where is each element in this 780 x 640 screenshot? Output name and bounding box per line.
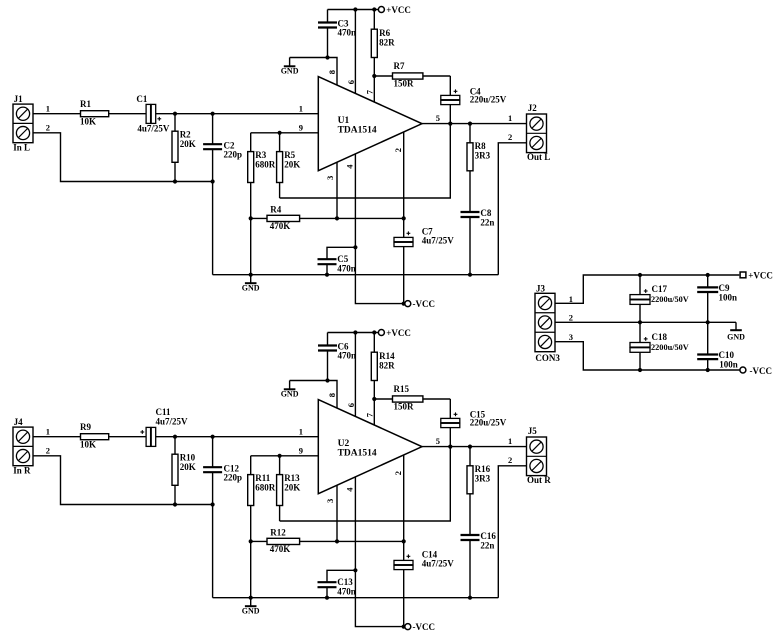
resistor R13 20K [279, 456, 281, 475]
node C4/feedback [448, 122, 452, 126]
wire J3.2 (gnd) [555, 321, 736, 323]
svg-text:R7: R7 [394, 61, 405, 71]
svg-text:1: 1 [508, 436, 512, 446]
pin 4 wire of U1 to -VCC [355, 154, 403, 304]
output wire pin5 [422, 446, 527, 448]
svg-text:GND: GND [727, 333, 745, 342]
svg-text:3: 3 [325, 176, 335, 180]
svg-text:R6: R6 [379, 28, 390, 38]
svg-text:2: 2 [46, 123, 50, 133]
svg-text:+VCC: +VCC [386, 5, 411, 15]
svg-text:R13: R13 [284, 473, 300, 483]
node C17 top [638, 273, 642, 277]
svg-text:R2: R2 [180, 130, 191, 140]
node R6/R7/pin7 [372, 74, 376, 78]
svg-text:TDA1514: TDA1514 [338, 125, 377, 135]
svg-text:1: 1 [299, 427, 303, 437]
wire to gnd symbol (top) [290, 57, 328, 59]
svg-text:470n: 470n [337, 264, 356, 274]
node C6 bottom / pin8 [325, 378, 329, 382]
pin 2 wire of U1 [403, 132, 405, 237]
feedback wire from output [280, 447, 451, 521]
svg-text:470n: 470n [338, 28, 357, 38]
capacitor C18 2200u/50V [639, 322, 641, 342]
wire R1 to C1 [109, 113, 146, 115]
node R6 top [372, 7, 376, 11]
svg-text:R8: R8 [475, 141, 486, 151]
node C5 branch [353, 245, 357, 249]
+VCC terminal (square) [740, 272, 746, 278]
svg-text:8: 8 [327, 70, 337, 74]
resistor R10 20K [174, 437, 176, 455]
svg-text:20K: 20K [284, 483, 300, 493]
node R11 on gnd rail [249, 596, 253, 600]
gnd rail wire [213, 597, 499, 599]
svg-text:GND: GND [242, 284, 260, 293]
svg-text:J5: J5 [528, 426, 538, 436]
wire J4.2 return [33, 456, 213, 505]
svg-text:6: 6 [346, 403, 356, 407]
resistor R1 10K [81, 111, 109, 117]
svg-text:U1: U1 [338, 116, 350, 126]
node R10 bottom [173, 502, 177, 506]
svg-text:3R3: 3R3 [475, 474, 491, 484]
node -VCC junction [402, 625, 406, 629]
svg-text:In L: In L [13, 143, 30, 153]
wire C14 to -VCC rail [403, 570, 405, 627]
svg-text:4u7/25V: 4u7/25V [156, 417, 189, 427]
node C2 bottom [211, 179, 215, 183]
svg-text:R3: R3 [255, 150, 266, 160]
node C15/feedback [448, 445, 452, 449]
node C18 bottom [638, 368, 642, 372]
wire pin9 of U1 [251, 132, 319, 134]
wire to J5.2 [498, 466, 526, 598]
resistor R15 150R [374, 398, 392, 400]
capacitor C13 470n [327, 570, 355, 582]
+VCC top wire [328, 9, 379, 11]
pin 8 wire of U2 [328, 381, 338, 409]
resistor R7 150R [374, 75, 392, 77]
svg-text:1: 1 [508, 113, 512, 123]
capacitor C3 470n (supply) [327, 10, 329, 23]
svg-text:470K: 470K [270, 544, 291, 554]
capacitor C12 220p [212, 437, 214, 467]
svg-text:22n: 22n [480, 540, 494, 550]
op-amp U2 TDA1514 triangle [318, 400, 422, 494]
capacitor C11 4u7/25V (electrolytic) [146, 427, 151, 446]
svg-text:+VCC: +VCC [748, 270, 773, 280]
capacitor C4 220u/25V [449, 76, 451, 95]
wire J1.1 to R1 [33, 113, 81, 115]
wire J4.1 to R9 [33, 436, 81, 438]
capacitor C16 22n [461, 534, 480, 536]
wire R9 to C11 [109, 436, 146, 438]
node pin3 wire meets R4 [335, 216, 339, 220]
svg-text:3: 3 [569, 332, 573, 342]
node C12 bottom [211, 502, 215, 506]
svg-text:Out R: Out R [527, 475, 551, 485]
node C12 top [211, 435, 215, 439]
node C16 on gnd rail [468, 596, 472, 600]
ground symbol [250, 598, 252, 607]
svg-text:GND: GND [281, 390, 299, 399]
svg-text:82R: 82R [379, 360, 395, 370]
+VCC terminal [378, 330, 384, 336]
node pin6 on +VCC wire [353, 7, 357, 11]
svg-text:680R: 680R [255, 483, 275, 493]
svg-text:3: 3 [325, 499, 335, 503]
svg-text:2: 2 [393, 148, 403, 152]
svg-text:R12: R12 [270, 527, 286, 537]
connector J4 (input) [13, 427, 33, 466]
svg-text:R16: R16 [475, 464, 491, 474]
wire J3.1 to +VCC rail [555, 275, 739, 303]
wire J3.3 to -VCC rail [555, 342, 740, 370]
pin 6 wire of U2 [354, 333, 356, 417]
-VCC terminal [405, 301, 411, 307]
svg-text:150R: 150R [394, 401, 415, 411]
resistor R4 470K [251, 217, 267, 219]
svg-text:R11: R11 [255, 473, 271, 483]
capacitor C17 2200u/50V [639, 275, 641, 295]
node C13 on gnd rail [325, 596, 329, 600]
svg-text:TDA1514: TDA1514 [338, 448, 377, 458]
+VCC terminal [378, 7, 384, 13]
svg-text:R5: R5 [284, 150, 295, 160]
svg-text:470n: 470n [338, 351, 357, 361]
node C10 bottom [706, 368, 710, 372]
node C2 top [211, 112, 215, 116]
svg-text:10K: 10K [80, 117, 96, 127]
svg-text:J4: J4 [14, 417, 24, 427]
feedback wire from output [280, 124, 451, 198]
svg-text:R15: R15 [394, 384, 410, 394]
svg-text:4: 4 [344, 487, 354, 492]
svg-text:C11: C11 [156, 407, 172, 417]
svg-text:20K: 20K [180, 139, 196, 149]
gnd rail wire [213, 274, 499, 276]
svg-text:C17: C17 [652, 284, 668, 294]
resistor R8 3R3 [469, 124, 471, 143]
svg-text:-VCC: -VCC [413, 622, 436, 632]
svg-text:+VCC: +VCC [386, 328, 411, 338]
svg-text:C9: C9 [719, 283, 730, 293]
-VCC terminal (power) [740, 367, 746, 373]
node R3 top [278, 131, 282, 135]
node -VCC junction [402, 302, 406, 306]
ground symbol (top) [289, 381, 291, 390]
svg-text:4u7/25V: 4u7/25V [137, 123, 170, 133]
svg-text:3R3: 3R3 [475, 151, 491, 161]
node pin6 on +VCC wire [353, 330, 357, 334]
svg-text:C18: C18 [652, 332, 668, 342]
svg-text:2200u/50V: 2200u/50V [651, 343, 689, 352]
svg-text:7: 7 [364, 89, 374, 94]
node C3 bottom / pin8 [325, 55, 329, 59]
node R11 top [278, 454, 282, 458]
node R14/R15/pin7 [372, 397, 376, 401]
pin 7 wire of U2 [373, 399, 375, 425]
svg-text:470K: 470K [270, 221, 291, 231]
wire to J2.2 [498, 143, 526, 275]
svg-text:4: 4 [344, 164, 354, 169]
node pin3 wire meets R12 [335, 539, 339, 543]
pin 4 wire of U2 to -VCC [355, 477, 403, 627]
svg-text:GND: GND [242, 607, 260, 616]
node R3 on gnd rail [249, 273, 253, 277]
svg-text:82R: 82R [379, 37, 395, 47]
resistor R3 680R [250, 133, 252, 152]
svg-text:100n: 100n [719, 293, 738, 303]
svg-text:6: 6 [346, 80, 356, 84]
pin 2 wire of U2 [403, 455, 405, 560]
svg-text:GND: GND [281, 67, 299, 76]
resistor R14 82R [373, 333, 375, 353]
wire C11 to pin1 of U2 [156, 436, 318, 438]
node R10 top [173, 435, 177, 439]
svg-text:1: 1 [46, 104, 50, 114]
node pin2/C14 [402, 539, 406, 543]
resistor R12 470K [251, 540, 267, 542]
svg-text:R10: R10 [180, 453, 196, 463]
resistor R2 20K [174, 114, 176, 132]
svg-text:In R: In R [13, 466, 31, 476]
connector J5 (output) [527, 437, 547, 476]
pin 6 wire of U1 [354, 10, 356, 94]
svg-text:470n: 470n [337, 587, 356, 597]
node R16 top [468, 445, 472, 449]
svg-text:220p: 220p [224, 473, 243, 483]
pin 3 wire of U2 [336, 485, 338, 541]
svg-text:U2: U2 [338, 439, 350, 449]
node C13 branch [353, 568, 357, 572]
wire input-return down to gnd rail [212, 182, 214, 275]
node C17/C18 mid [638, 320, 642, 324]
connector J2 (output) [527, 114, 547, 153]
node C5 on gnd rail [325, 273, 329, 277]
svg-text:220u/25V: 220u/25V [470, 94, 507, 104]
pin 3 wire of U1 [336, 162, 338, 218]
node R14 top [372, 330, 376, 334]
capacitor C10 100n [707, 322, 709, 354]
svg-text:20K: 20K [284, 160, 300, 170]
svg-text:2: 2 [393, 471, 403, 475]
node R8 top [468, 122, 472, 126]
capacitor C9 100n [707, 275, 709, 287]
capacitor C8 22n [461, 211, 480, 213]
+VCC top wire [328, 332, 379, 334]
svg-text:R4: R4 [270, 204, 281, 214]
resistor R6 82R [373, 10, 375, 30]
svg-text:22n: 22n [480, 217, 494, 227]
svg-text:R1: R1 [80, 99, 91, 109]
capacitor C15 220u/25V [449, 399, 451, 418]
svg-text:2: 2 [46, 446, 50, 456]
resistor R11 680R [250, 456, 252, 475]
svg-text:150R: 150R [394, 78, 415, 88]
svg-text:J3: J3 [536, 283, 546, 293]
svg-text:-VCC: -VCC [750, 366, 773, 376]
svg-text:2: 2 [508, 132, 512, 142]
wire C7 to -VCC rail [403, 247, 405, 304]
resistor R5 20K [279, 133, 281, 152]
wire J1.2 return [33, 133, 213, 182]
wire pin9 of U2 [251, 455, 319, 457]
svg-text:J1: J1 [14, 94, 24, 104]
svg-text:4u7/25V: 4u7/25V [422, 235, 455, 245]
node R4 left [249, 216, 253, 220]
svg-text:20K: 20K [180, 462, 196, 472]
svg-text:C1: C1 [136, 94, 147, 104]
svg-text:1: 1 [569, 294, 573, 304]
svg-text:C5: C5 [337, 254, 348, 264]
capacitor C1 4u7/25V (electrolytic) [146, 104, 151, 123]
svg-text:4u7/25V: 4u7/25V [422, 558, 455, 568]
svg-text:5: 5 [436, 436, 440, 446]
node R2 bottom [173, 179, 177, 183]
pin 7 wire of U1 [373, 76, 375, 102]
svg-text:2200u/50V: 2200u/50V [651, 295, 689, 304]
svg-text:8: 8 [327, 393, 337, 397]
node C8 on gnd rail [468, 273, 472, 277]
svg-text:9: 9 [299, 122, 303, 132]
svg-text:R14: R14 [379, 351, 395, 361]
svg-text:10K: 10K [80, 440, 96, 450]
capacitor C14 4u7/25V (bootstrap) [394, 560, 413, 564]
capacitor C5 470n [327, 247, 355, 259]
node R12 left [249, 539, 253, 543]
svg-text:Out L: Out L [527, 152, 550, 162]
svg-text:J2: J2 [528, 103, 538, 113]
svg-text:680R: 680R [255, 160, 275, 170]
svg-text:C13: C13 [337, 577, 353, 587]
wire input-return down to gnd rail [212, 505, 214, 598]
-VCC terminal [405, 624, 411, 630]
resistor R9 10K [81, 434, 109, 440]
pin 8 wire of U1 [328, 58, 338, 86]
svg-text:1: 1 [46, 427, 50, 437]
op-amp U1 TDA1514 triangle [318, 77, 422, 171]
svg-text:R9: R9 [80, 422, 91, 432]
svg-text:220p: 220p [224, 150, 243, 160]
node C9/C10 mid [706, 320, 710, 324]
capacitor C2 220p [212, 114, 214, 144]
svg-text:100n: 100n [719, 360, 738, 370]
svg-text:2: 2 [569, 313, 573, 323]
svg-text:-VCC: -VCC [413, 299, 436, 309]
capacitor C6 470n (supply) [327, 333, 329, 346]
node C9 top [706, 273, 710, 277]
svg-text:CON3: CON3 [535, 353, 560, 363]
svg-text:1: 1 [299, 104, 303, 114]
wire to gnd symbol (top) [290, 380, 328, 382]
connector J3 (power input) [535, 293, 555, 351]
resistor R16 3R3 [469, 447, 471, 466]
output wire pin5 [422, 123, 527, 125]
connector J1 (input) [13, 104, 33, 143]
node pin2/C7 [402, 216, 406, 220]
svg-text:9: 9 [299, 445, 303, 455]
ground symbol [250, 275, 252, 284]
node R2 top [173, 112, 177, 116]
svg-text:2: 2 [508, 455, 512, 465]
svg-text:7: 7 [364, 412, 374, 417]
capacitor C7 4u7/25V (bootstrap) [394, 237, 413, 241]
wire C1 to pin1 of U1 [156, 113, 318, 115]
ground symbol (power) [735, 322, 737, 330]
ground symbol (top) [289, 58, 291, 67]
svg-text:5: 5 [436, 113, 440, 123]
svg-text:220u/25V: 220u/25V [470, 417, 507, 427]
